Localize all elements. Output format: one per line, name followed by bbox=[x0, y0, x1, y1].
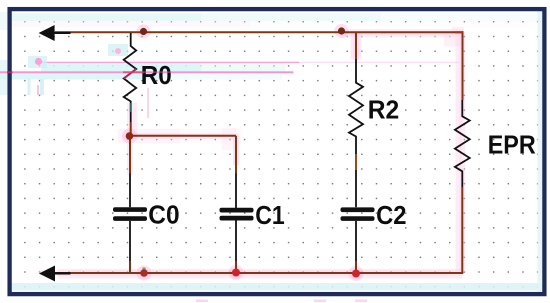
svg-text:R2: R2 bbox=[368, 96, 400, 124]
svg-text:C0: C0 bbox=[148, 201, 179, 229]
svg-text:C2: C2 bbox=[376, 202, 406, 230]
svg-text:R0: R0 bbox=[141, 62, 172, 90]
svg-text:EPR: EPR bbox=[488, 131, 536, 159]
svg-text:C1: C1 bbox=[255, 202, 285, 230]
